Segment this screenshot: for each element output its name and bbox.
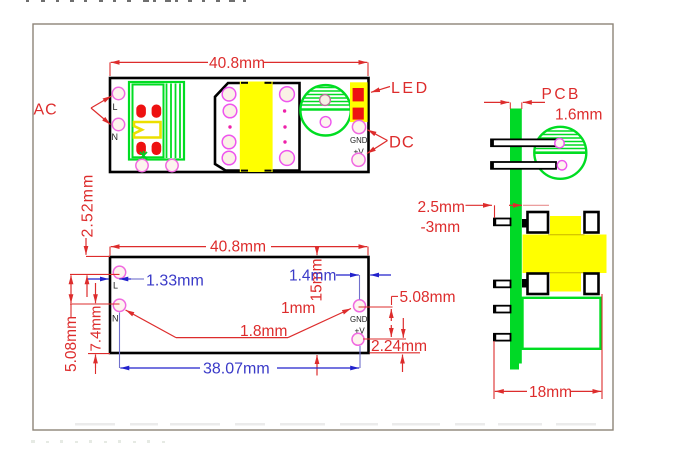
svg-text:1.6mm: 1.6mm	[555, 107, 602, 124]
svg-text:-3mm: -3mm	[421, 219, 461, 236]
svg-text:40.8mm: 40.8mm	[209, 55, 265, 72]
svg-text:1.8mm: 1.8mm	[240, 323, 287, 340]
svg-text:38.07mm: 38.07mm	[203, 361, 270, 378]
svg-text:2.5mm: 2.5mm	[418, 199, 465, 216]
svg-text:2.52mm: 2.52mm	[80, 174, 97, 238]
svg-text:7.4mm: 7.4mm	[88, 306, 105, 352]
svg-text:+V: +V	[355, 327, 366, 336]
svg-text:18mm: 18mm	[529, 384, 572, 401]
svg-text:LED: LED	[391, 80, 430, 97]
svg-text:5.08mm: 5.08mm	[63, 316, 80, 372]
svg-text:L: L	[113, 281, 118, 291]
svg-text:GND: GND	[350, 315, 368, 324]
svg-text:PCB: PCB	[542, 86, 581, 103]
svg-text:DC: DC	[389, 134, 415, 152]
svg-text:N: N	[112, 314, 119, 324]
svg-text:GND: GND	[350, 136, 368, 145]
svg-text:L: L	[113, 102, 118, 112]
svg-text:5.08mm: 5.08mm	[400, 289, 456, 306]
svg-text:N: N	[112, 132, 119, 142]
svg-text:1mm: 1mm	[281, 300, 315, 317]
svg-text:40.8mm: 40.8mm	[210, 239, 266, 256]
svg-text:1.33mm: 1.33mm	[146, 273, 204, 290]
svg-text:1.4mm: 1.4mm	[289, 268, 336, 285]
svg-text:AC: AC	[34, 102, 58, 119]
